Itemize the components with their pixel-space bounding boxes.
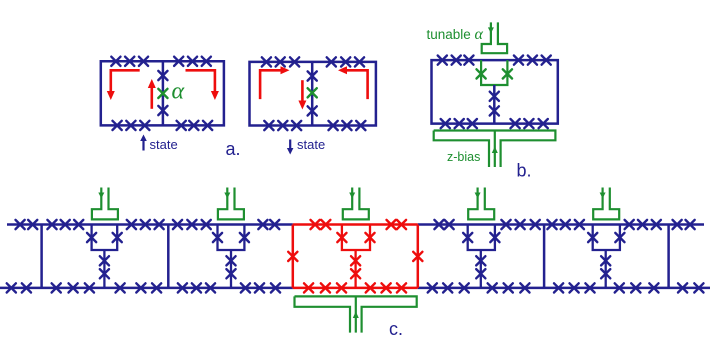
junction bbox=[539, 119, 548, 128]
junction bbox=[158, 106, 167, 115]
junction bbox=[264, 121, 273, 130]
wire: center branch bbox=[605, 250, 607, 288]
wire: cell boundary (red) bbox=[292, 225, 295, 288]
qubit loop outline (up state) bbox=[101, 61, 224, 125]
SQUID loop bbox=[218, 225, 245, 251]
junction bbox=[226, 269, 235, 278]
wire: cell boundary bbox=[543, 225, 546, 288]
junction bbox=[271, 283, 280, 292]
junction bbox=[455, 119, 464, 128]
junction bbox=[476, 256, 485, 265]
wire: cell boundary bbox=[40, 225, 43, 288]
SQUID junction (green) bbox=[503, 69, 512, 78]
junction bbox=[601, 256, 610, 265]
junction bbox=[22, 283, 31, 292]
wire: shared center branch bbox=[311, 62, 314, 126]
junction bbox=[342, 121, 351, 130]
junction bbox=[694, 283, 703, 292]
junction bbox=[434, 220, 443, 229]
junction bbox=[206, 283, 215, 292]
junction bbox=[173, 220, 182, 229]
SQUID junction bbox=[113, 233, 122, 242]
junction bbox=[188, 57, 197, 66]
junction bbox=[7, 283, 16, 292]
qubit cell outline bbox=[432, 60, 558, 124]
wire: cell boundary bbox=[667, 225, 670, 288]
junction bbox=[490, 106, 499, 115]
wire: center branch bbox=[493, 85, 496, 124]
junction bbox=[69, 283, 78, 292]
center branch current arrow (down) bbox=[301, 80, 304, 101]
svg-text:state: state bbox=[150, 137, 178, 152]
junction bbox=[125, 57, 134, 66]
bias current arrow (down) bbox=[475, 193, 481, 199]
junction bbox=[443, 283, 452, 292]
junction bbox=[74, 220, 83, 229]
junction bbox=[174, 57, 183, 66]
wire: bottom rail (highlighted cell, red) bbox=[293, 287, 418, 290]
z-bias line for chain (T feed) bbox=[295, 296, 417, 332]
junction bbox=[113, 121, 122, 130]
SQUID loop bbox=[468, 225, 495, 251]
alpha junction (green) bbox=[308, 88, 317, 97]
junction bbox=[139, 57, 148, 66]
junction bbox=[355, 57, 364, 66]
junction bbox=[520, 283, 529, 292]
SQUID junction bbox=[615, 233, 624, 242]
junction bbox=[445, 220, 454, 229]
junction bbox=[292, 121, 301, 130]
junction bbox=[276, 57, 285, 66]
junction bbox=[638, 220, 647, 229]
junction bbox=[116, 283, 125, 292]
svg-text:state: state bbox=[297, 137, 325, 152]
bias current arrow (down) bbox=[98, 193, 104, 199]
SQUID junction bbox=[213, 233, 222, 242]
junction bbox=[192, 283, 201, 292]
svg-text:a.: a. bbox=[226, 139, 241, 159]
junction bbox=[397, 283, 406, 292]
junction bbox=[452, 56, 461, 65]
SQUID junction bbox=[463, 233, 472, 242]
junction bbox=[127, 220, 136, 229]
junction bbox=[241, 283, 250, 292]
wire: center branch bbox=[230, 250, 232, 288]
junction bbox=[178, 283, 187, 292]
junction bbox=[397, 220, 406, 229]
junction bbox=[488, 283, 497, 292]
junction bbox=[52, 283, 61, 292]
current arrow left loop (cw) bbox=[260, 70, 281, 99]
arrowhead bbox=[281, 66, 290, 74]
svg-text:b.: b. bbox=[517, 161, 532, 181]
arrowhead bbox=[287, 148, 294, 155]
junction bbox=[189, 121, 198, 130]
junction bbox=[321, 283, 330, 292]
junction bbox=[111, 57, 120, 66]
junction bbox=[270, 220, 279, 229]
junction bbox=[141, 220, 150, 229]
bias current arrow (up) bbox=[353, 312, 359, 319]
current arrow right loop (cw) bbox=[186, 70, 215, 91]
junction bbox=[226, 256, 235, 265]
junction bbox=[329, 121, 338, 130]
wire: bottom rail (right, blue) bbox=[418, 287, 710, 290]
junction bbox=[177, 121, 186, 130]
wire: cell boundary (red) bbox=[417, 225, 420, 288]
junction bbox=[625, 220, 634, 229]
junction bbox=[341, 57, 350, 66]
junction bbox=[673, 220, 682, 229]
junction bbox=[278, 121, 287, 130]
bias current arrow (down) bbox=[224, 193, 230, 199]
arrowhead bbox=[148, 79, 156, 88]
bias current arrow (up) bbox=[492, 147, 498, 154]
SQUID junction bbox=[490, 233, 499, 242]
junction bbox=[382, 283, 391, 292]
junction bbox=[356, 121, 365, 130]
junction bbox=[28, 220, 37, 229]
svg-text:z-bias: z-bias bbox=[447, 150, 480, 164]
alpha bias line (T antenna) bbox=[593, 188, 619, 220]
tunable alpha SQUID loop (green) bbox=[481, 60, 507, 85]
junction bbox=[351, 269, 360, 278]
alpha junction (green) bbox=[158, 89, 167, 98]
junction bbox=[441, 119, 450, 128]
alpha bias line (T antenna) bbox=[218, 188, 244, 220]
state arrow up bbox=[142, 140, 144, 151]
svg-text:c.: c. bbox=[389, 319, 403, 338]
junction bbox=[561, 220, 570, 229]
junction bbox=[575, 220, 584, 229]
wire: shared center branch bbox=[162, 61, 165, 125]
junction bbox=[649, 283, 658, 292]
junction bbox=[501, 220, 510, 229]
junction bbox=[258, 220, 267, 229]
junction bbox=[262, 57, 271, 66]
junction bbox=[311, 220, 320, 229]
junction bbox=[202, 57, 211, 66]
arrowhead bbox=[338, 66, 347, 74]
wire: center branch bbox=[354, 250, 356, 288]
junction bbox=[290, 57, 299, 66]
junction bbox=[85, 283, 94, 292]
z-bias line (T feed) bbox=[434, 131, 556, 168]
junction bbox=[490, 92, 499, 101]
junction bbox=[304, 283, 313, 292]
tunable-alpha bias line (T antenna) bbox=[482, 22, 507, 53]
junction bbox=[652, 220, 661, 229]
wire: center branch bbox=[480, 250, 482, 288]
junction bbox=[524, 119, 533, 128]
junction bbox=[152, 283, 161, 292]
junction bbox=[158, 71, 167, 80]
junction bbox=[678, 283, 687, 292]
arrowhead bbox=[107, 91, 115, 100]
bias current arrow (down) bbox=[488, 27, 494, 33]
coupler junction (red) bbox=[413, 252, 422, 261]
junction bbox=[528, 56, 537, 65]
junction bbox=[476, 269, 485, 278]
junction bbox=[601, 269, 610, 278]
junction bbox=[366, 283, 375, 292]
junction bbox=[511, 119, 520, 128]
current arrow right loop (ccw) bbox=[347, 70, 368, 99]
svg-text:α: α bbox=[172, 79, 185, 105]
SQUID junction bbox=[240, 233, 249, 242]
alpha bias line (T antenna) bbox=[92, 188, 118, 220]
junction bbox=[100, 269, 109, 278]
wire: cell boundary bbox=[167, 225, 170, 288]
current arrow left loop (ccw) bbox=[111, 70, 140, 91]
state arrow down bbox=[289, 140, 291, 150]
junction bbox=[187, 220, 196, 229]
junction bbox=[327, 57, 336, 66]
junction bbox=[308, 71, 317, 80]
SQUID junction (green) bbox=[477, 69, 486, 78]
coupler junction (red) bbox=[288, 252, 297, 261]
junction bbox=[202, 220, 211, 229]
alpha bias line (T antenna) bbox=[343, 188, 369, 220]
junction bbox=[136, 283, 145, 292]
junction bbox=[47, 220, 56, 229]
junction bbox=[337, 283, 346, 292]
junction bbox=[516, 220, 525, 229]
junction bbox=[460, 283, 469, 292]
junction bbox=[686, 220, 695, 229]
junction bbox=[531, 220, 540, 229]
arrowhead bbox=[298, 101, 306, 110]
svg-text:tunable α: tunable α bbox=[427, 26, 484, 43]
junction bbox=[321, 220, 330, 229]
junction bbox=[428, 283, 437, 292]
junction bbox=[468, 119, 477, 128]
junction bbox=[615, 283, 624, 292]
junction bbox=[308, 106, 317, 115]
qubit loop outline (down state) bbox=[250, 62, 376, 126]
SQUID junction bbox=[87, 233, 96, 242]
junction bbox=[387, 220, 396, 229]
SQUID junction bbox=[365, 233, 374, 242]
junction bbox=[570, 283, 579, 292]
bias current arrow (down) bbox=[349, 193, 355, 199]
junction bbox=[140, 121, 149, 130]
junction bbox=[100, 256, 109, 265]
junction bbox=[126, 121, 135, 130]
center branch current arrow (up) bbox=[151, 88, 154, 109]
SQUID junction bbox=[337, 233, 346, 242]
wire: center branch bbox=[103, 250, 105, 288]
wire: bottom rail (left, blue) bbox=[0, 287, 293, 290]
bias current arrow (down) bbox=[600, 193, 606, 199]
junction bbox=[203, 121, 212, 130]
junction bbox=[255, 283, 264, 292]
junction bbox=[585, 283, 594, 292]
junction bbox=[155, 220, 164, 229]
junction bbox=[61, 220, 70, 229]
junction bbox=[464, 56, 473, 65]
wire: top rail (left, blue) bbox=[7, 223, 293, 226]
arrowhead bbox=[140, 135, 147, 142]
arrowhead bbox=[211, 91, 219, 100]
junction bbox=[542, 56, 551, 65]
junction bbox=[351, 256, 360, 265]
junction bbox=[631, 283, 640, 292]
SQUID loop bbox=[92, 225, 118, 251]
junction bbox=[547, 220, 556, 229]
alpha bias line (T antenna) bbox=[468, 188, 494, 220]
junction bbox=[504, 283, 513, 292]
junction bbox=[554, 283, 563, 292]
SQUID junction bbox=[588, 233, 597, 242]
SQUID loop bbox=[593, 225, 620, 251]
junction bbox=[514, 56, 523, 65]
wire: top rail (right, blue) bbox=[418, 223, 704, 226]
wire: top rail (highlighted cell, red) bbox=[293, 223, 418, 226]
junction bbox=[16, 220, 25, 229]
SQUID loop bbox=[342, 225, 370, 251]
junction bbox=[438, 56, 447, 65]
